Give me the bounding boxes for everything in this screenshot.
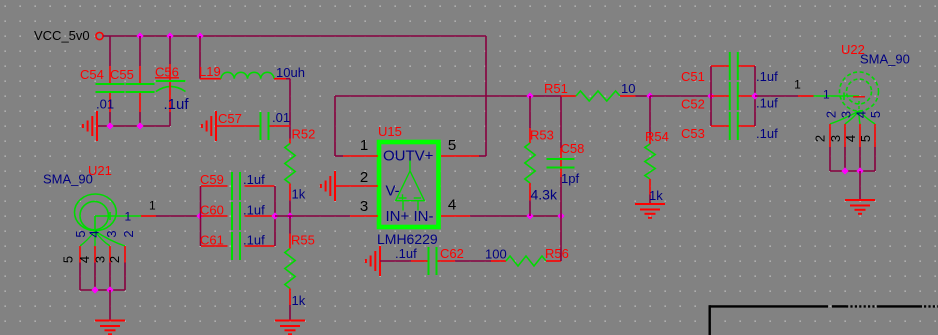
op-amp U15 triangle symbol — [409, 161, 411, 172]
ground U22 shield — [845, 199, 875, 201]
resistor R53 — [529, 96, 531, 128]
svg-text:.1uf: .1uf — [243, 172, 265, 187]
svg-text:1: 1 — [794, 78, 801, 92]
wire C51 block to U22 pin1 — [755, 95, 798, 97]
resistor R56 — [491, 260, 506, 262]
U21 pin 1 — [95, 215, 141, 217]
svg-text:2: 2 — [360, 169, 368, 186]
svg-text:4: 4 — [448, 197, 456, 214]
U21 pin 3 — [109, 246, 111, 263]
resistor R54 — [649, 96, 651, 135]
svg-text:5: 5 — [858, 135, 873, 142]
svg-text:3: 3 — [828, 135, 843, 142]
svg-text:2: 2 — [107, 256, 122, 263]
junction pin4 node C58 — [557, 212, 564, 219]
svg-text:10uh: 10uh — [276, 65, 305, 80]
svg-text:1: 1 — [125, 210, 132, 224]
wire op-amp pin5 to VCC rail — [479, 155, 486, 157]
wire R56 up to pin4 node — [560, 216, 562, 261]
capacitor C61 — [201, 245, 228, 247]
svg-text:SMA_90: SMA_90 — [43, 172, 93, 187]
junction C54 to ground bus — [106, 122, 113, 129]
svg-text:V-: V- — [386, 183, 400, 200]
capacitor C57 — [216, 125, 260, 127]
ground C62 — [379, 246, 381, 276]
U22 shield pins fan — [830, 111, 859, 124]
svg-text:5: 5 — [61, 256, 76, 263]
svg-text:C53: C53 — [681, 126, 705, 141]
svg-text:C61: C61 — [200, 233, 224, 248]
junction C60 right rail — [271, 212, 278, 219]
wire C59 block left rail — [200, 186, 202, 246]
svg-text:3: 3 — [104, 230, 119, 237]
junction U21 wire at C59 block — [196, 212, 203, 219]
wire R52 to input node — [289, 201, 291, 217]
svg-text:R55: R55 — [291, 233, 315, 248]
svg-text:R53: R53 — [530, 128, 554, 143]
capacitor C58 — [560, 96, 562, 148]
node junction on VCC rail at C55 — [136, 32, 143, 39]
ground op-amp V- pin — [334, 171, 336, 201]
svg-text:C51: C51 — [681, 69, 705, 84]
op-amp U15 highlighted body — [379, 142, 439, 227]
wire C59 block right rail — [274, 186, 276, 246]
svg-text:4: 4 — [87, 230, 102, 237]
ground R55 — [275, 320, 305, 322]
U22 pin 4 — [859, 124, 861, 147]
ground U21 shield — [95, 320, 125, 322]
svg-text:.1uf: .1uf — [395, 246, 417, 261]
wire R55 to ground — [289, 305, 291, 321]
svg-text:R56: R56 — [545, 246, 569, 261]
svg-text:5: 5 — [448, 137, 456, 154]
junction U22 ground bus pin3 — [841, 167, 848, 174]
U22 pin 5 — [874, 124, 876, 147]
junction U21 ground bus pin3 — [106, 286, 113, 293]
svg-text:.01: .01 — [272, 110, 290, 125]
svg-text:IN-: IN- — [414, 208, 434, 225]
capacitor C62 — [380, 260, 411, 262]
U21 pin 2 — [124, 246, 126, 263]
junction pin4 node R53 — [526, 212, 533, 219]
wire U21 shield pins to ground bus — [79, 263, 81, 291]
svg-text:.1uf: .1uf — [164, 96, 190, 113]
junction C55 to ground bus — [136, 122, 143, 129]
U21 shield pins fan — [80, 231, 95, 246]
capacitor C55 — [139, 36, 141, 66]
svg-text:3: 3 — [93, 256, 108, 263]
capacitor C59 — [201, 185, 228, 187]
svg-text:C54: C54 — [80, 67, 104, 82]
sheet border corner — [710, 305, 828, 307]
svg-text:4: 4 — [843, 135, 858, 142]
ground for C57 — [215, 111, 217, 141]
svg-text:R52: R52 — [292, 127, 316, 142]
capacitor C53 — [711, 125, 730, 127]
wire VCC_5v0 top rail — [103, 35, 486, 37]
svg-text:IN+: IN+ — [386, 208, 410, 225]
wire R54 node to C51 block — [650, 95, 711, 97]
capacitor C54 — [109, 36, 111, 66]
wire C51 block left rail — [710, 66, 712, 126]
svg-text:C52: C52 — [681, 97, 705, 112]
svg-text:3: 3 — [839, 111, 854, 118]
junction R55 node — [286, 212, 293, 219]
svg-text:C55: C55 — [110, 67, 134, 82]
U22 pin 3 — [844, 124, 846, 147]
resistor R55 — [289, 216, 291, 234]
svg-text:10: 10 — [621, 81, 635, 96]
svg-text:2: 2 — [824, 111, 839, 118]
resistor R52 — [289, 139, 291, 144]
svg-text:100: 100 — [485, 247, 507, 262]
capacitor C51 — [711, 65, 730, 67]
wire C62 to R56 — [455, 260, 491, 262]
wire input node to op-amp pin3 — [275, 215, 350, 217]
svg-text:.1uf: .1uf — [243, 203, 265, 218]
capacitor C52 — [711, 95, 730, 97]
svg-text:OUTV+: OUTV+ — [383, 148, 434, 165]
svg-text:1k: 1k — [292, 187, 306, 202]
junction C51 block left — [707, 92, 714, 99]
svg-text:4: 4 — [854, 111, 869, 118]
svg-text:4: 4 — [77, 256, 92, 263]
junction U21 ground bus pin4 — [91, 286, 98, 293]
svg-text:C58: C58 — [561, 141, 585, 156]
wire op-amp pin1 feedback up — [334, 96, 336, 156]
svg-text:L19: L19 — [199, 64, 221, 79]
wire feedback rail — [335, 95, 561, 97]
svg-text:VCC_5v0: VCC_5v0 — [34, 28, 90, 43]
svg-text:.01: .01 — [96, 97, 114, 112]
wire C51 block right rail — [754, 66, 756, 126]
svg-text:2: 2 — [813, 135, 828, 142]
junction R51 to R54 — [646, 92, 653, 99]
wire op-amp pin4 node — [470, 215, 530, 217]
svg-text:1k: 1k — [292, 293, 306, 308]
capacitor C56 polarized — [169, 36, 171, 64]
svg-text:.1uf: .1uf — [756, 126, 778, 141]
U21 pin 5 — [79, 246, 81, 263]
svg-text:C62: C62 — [440, 246, 464, 261]
node junction on VCC rail at C56 — [166, 32, 173, 39]
capacitor C60 — [201, 215, 228, 217]
svg-text:C57: C57 — [218, 111, 242, 126]
ground R54 — [635, 203, 665, 205]
svg-text:R54: R54 — [645, 129, 669, 144]
U22 pin 2 — [829, 124, 831, 147]
junction U22 ground bus pin4 — [856, 167, 863, 174]
svg-text:.1uf: .1uf — [756, 96, 778, 111]
inductor L19 — [199, 36, 201, 79]
wire U22 shield pins to ground bus — [829, 147, 831, 171]
svg-text:1: 1 — [149, 199, 156, 213]
resistor R51 — [561, 95, 576, 97]
svg-text:R51: R51 — [544, 81, 568, 96]
svg-text:1k: 1k — [649, 188, 663, 203]
svg-text:1: 1 — [360, 137, 368, 154]
svg-text:3: 3 — [360, 198, 368, 215]
wire U22 bus to ground — [859, 171, 861, 200]
wire U21 pin1 to C60 — [156, 215, 200, 217]
svg-text:SMA_90: SMA_90 — [860, 52, 910, 67]
svg-text:C60: C60 — [200, 203, 224, 218]
svg-text:4.3k: 4.3k — [531, 187, 558, 203]
svg-text:2: 2 — [121, 230, 136, 237]
U21 pin 4 — [94, 246, 96, 263]
svg-text:5: 5 — [868, 111, 883, 118]
node junction on VCC rail at L19 — [196, 32, 203, 39]
svg-text:.1uf: .1uf — [756, 69, 778, 84]
junction feedback at R53 — [526, 92, 533, 99]
svg-text:1: 1 — [823, 88, 830, 102]
junction C51 block right — [751, 92, 758, 99]
svg-text:C59: C59 — [200, 172, 224, 187]
wire L19 to C57 R52 branch — [289, 79, 291, 139]
wire U21 bus to ground — [109, 290, 111, 321]
svg-text:.1uf: .1uf — [243, 233, 265, 248]
svg-text:1pf: 1pf — [561, 171, 579, 186]
svg-text:LMH6229: LMH6229 — [377, 231, 438, 247]
wire decoupling ground bus — [97, 125, 170, 127]
svg-text:U15: U15 — [378, 124, 402, 139]
ground for C54 C55 C56 — [96, 111, 98, 141]
